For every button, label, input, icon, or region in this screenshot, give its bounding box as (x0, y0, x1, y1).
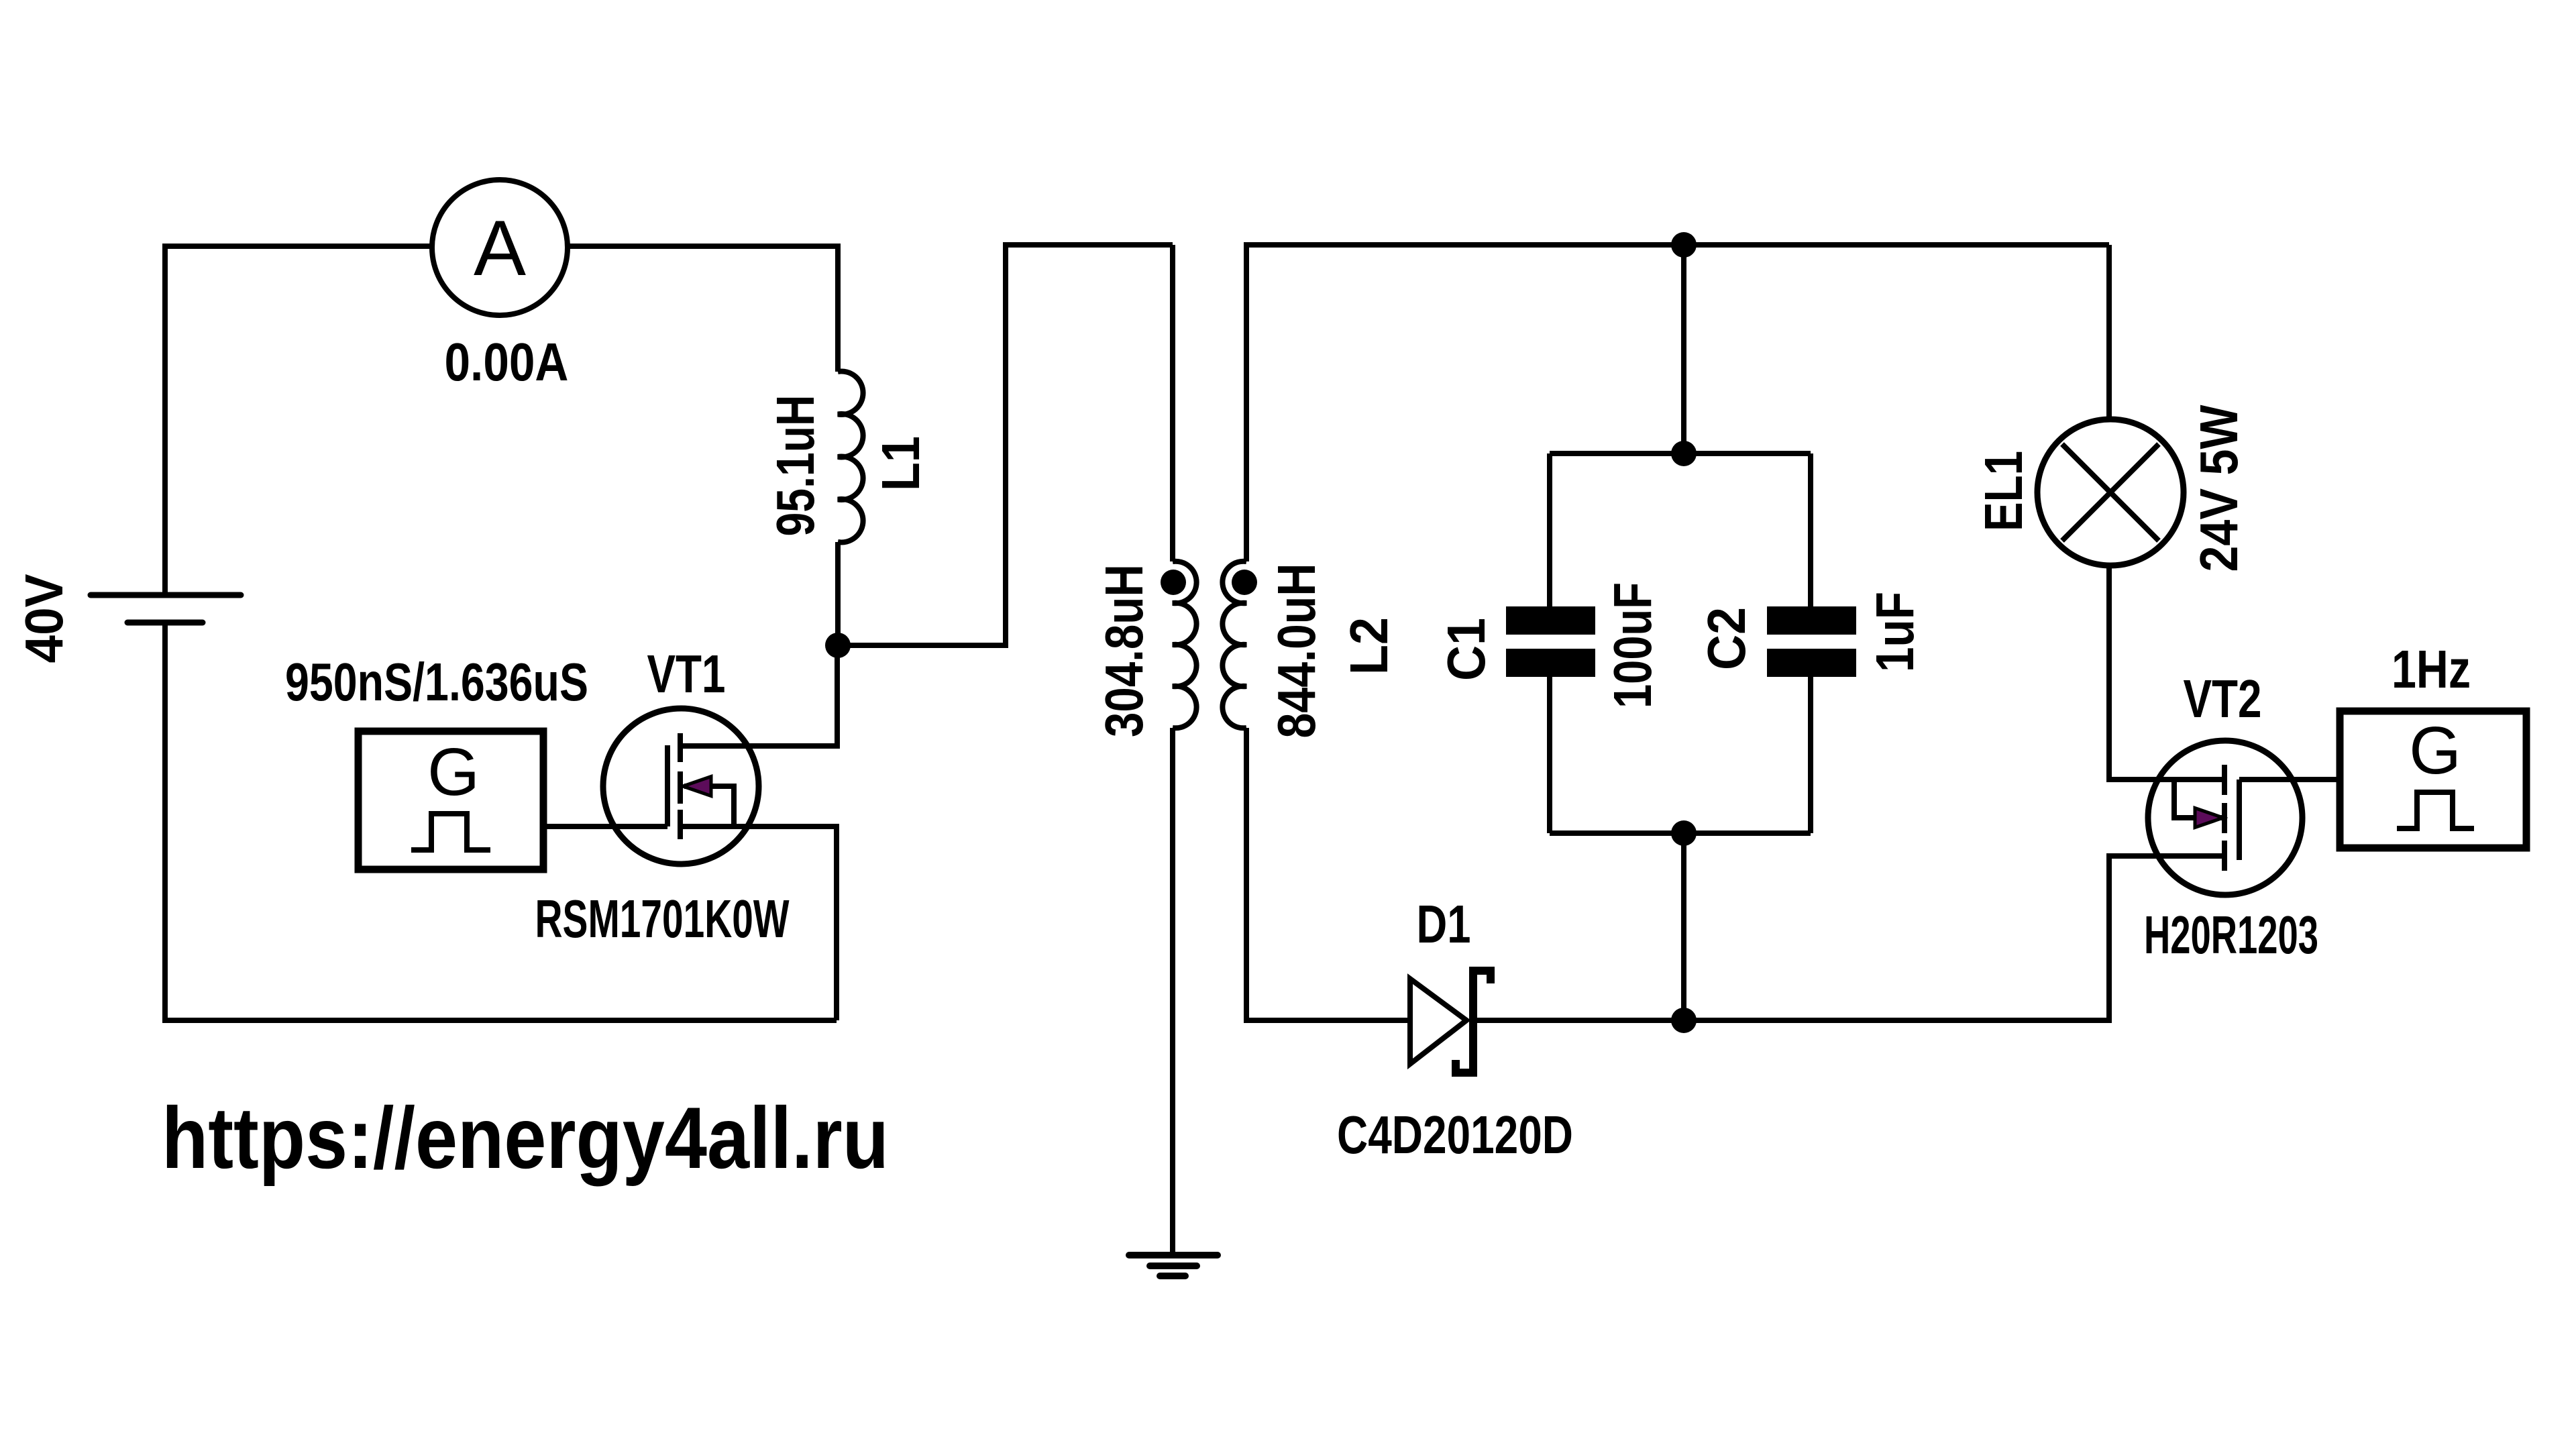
capacitor C2 plates (1767, 606, 1856, 635)
inductor L1 95.1uH (838, 372, 863, 543)
svg-text:1uF: 1uF (1865, 592, 1925, 672)
wire secondary top to top rail (1246, 245, 2109, 561)
wire node down to VT1 drain (680, 645, 837, 746)
svg-text:D1: D1 (1417, 894, 1471, 954)
capacitor C1 plates (1506, 606, 1595, 635)
transformer primary top wire (1170, 245, 1175, 561)
pulse glyph in G2 (2397, 792, 2474, 828)
wire diode cathode to bottom-right rail (1477, 856, 2224, 1020)
wire VT1 source to bottom rail (680, 826, 837, 1020)
VT2 body arrow (2195, 808, 2223, 828)
junction node top rail / capacitors (1671, 232, 1697, 258)
junction node capacitor bottom (1671, 820, 1697, 846)
capacitor bank bottom wire (1550, 830, 1811, 836)
pulse generator G1 box 950nS (358, 731, 543, 869)
svg-text:95.1uH: 95.1uH (765, 395, 825, 537)
battery GB1 40V plates (91, 592, 241, 598)
svg-text:EL1: EL1 (1974, 451, 2033, 531)
svg-text:40V: 40V (14, 574, 74, 663)
diode D1 triangle (1410, 979, 1466, 1064)
wire L1 bottom to node (835, 542, 841, 645)
diode D1 schottky cathode bar (1456, 967, 1491, 1077)
transformer primary winding 304.8uH (1173, 561, 1197, 729)
svg-text:G: G (427, 735, 480, 810)
wire primary bottom to ground (1170, 728, 1175, 1256)
wire battery minus to bottom rail (165, 623, 837, 1020)
transformer secondary winding 844.0uH L2 (1222, 561, 1246, 729)
svg-text:RSM1701K0W: RSM1701K0W (535, 889, 790, 949)
junction node bottom rail / diode (1671, 1008, 1697, 1033)
svg-text:0.00A: 0.00A (445, 332, 569, 392)
wire G1 to VT1 gate (543, 824, 667, 829)
wire secondary bottom to diode anode (1246, 728, 1410, 1020)
VT1 channel dashes (678, 733, 683, 839)
svg-text:1Hz: 1Hz (2392, 639, 2471, 699)
wire node to primary top (jog) (838, 245, 1173, 645)
wire C1 top lead (1547, 453, 1552, 606)
svg-text:G: G (2409, 713, 2461, 788)
svg-text:950nS/1.636uS: 950nS/1.636uS (285, 652, 588, 712)
capacitor bank top wire (1550, 451, 1811, 456)
pulse generator G2 box 1Hz (2340, 711, 2526, 848)
wire ammeter to L1 top (568, 246, 838, 372)
wire top rail node down to capacitor bank (1681, 245, 1686, 453)
svg-text:L1: L1 (871, 436, 930, 491)
transistor VT2 circle (2148, 741, 2302, 895)
transistor VT1 circle (603, 708, 759, 864)
svg-text:844.0uH: 844.0uH (1267, 563, 1326, 739)
wire top-left from battery to ammeter (165, 246, 432, 595)
svg-text:VT1: VT1 (647, 644, 726, 704)
svg-text:24V 5W: 24V 5W (2189, 405, 2249, 572)
wire lamp top (2106, 245, 2112, 419)
junction node capacitor top (1671, 441, 1697, 466)
svg-text:C4D20120D: C4D20120D (1337, 1105, 1573, 1165)
wire capacitor bank to bottom rail (1681, 833, 1686, 1020)
svg-text:100uF: 100uF (1603, 582, 1662, 708)
svg-text:H20R1203: H20R1203 (2144, 905, 2318, 965)
transformer secondary phasing dot (1232, 570, 1257, 595)
svg-text:L2: L2 (1339, 617, 1399, 675)
pulse glyph in G1 (411, 814, 490, 850)
VT2 body line (2174, 780, 2222, 818)
junction node L1/VT1 (825, 633, 851, 658)
VT1 gate bar (665, 745, 670, 826)
transformer primary phasing dot (1161, 570, 1186, 595)
svg-text:C2: C2 (1697, 607, 1756, 670)
svg-text:304.8uH: 304.8uH (1094, 564, 1154, 737)
svg-text:https://energy4all.ru: https://energy4all.ru (162, 1089, 889, 1187)
ground symbol (1129, 1255, 1218, 1276)
ammeter A (432, 180, 568, 315)
svg-text:C1: C1 (1436, 618, 1496, 681)
lamp EL1 circle (2037, 419, 2184, 566)
VT1 body arrow (683, 777, 711, 796)
VT2 channel dashes (2222, 765, 2227, 871)
wire VT2 gate to G2 (2239, 777, 2340, 782)
svg-text:VT2: VT2 (2184, 669, 2262, 729)
svg-text:A: A (474, 204, 526, 292)
VT1 body line (684, 786, 734, 826)
wire C2 bottom lead (1808, 677, 1813, 833)
wire lamp bottom to VT2 (2109, 566, 2224, 780)
lamp EL1 cross (2062, 444, 2159, 541)
wire C1 bottom lead (1547, 677, 1552, 833)
wire C2 top lead (1808, 453, 1813, 606)
VT2 gate bar (2237, 780, 2242, 860)
